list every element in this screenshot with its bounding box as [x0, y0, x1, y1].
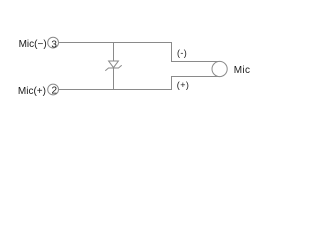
svg-text:(+): (+) [177, 80, 189, 90]
wire from pin 2 to (+) node [59, 77, 220, 90]
svg-text:3: 3 [51, 40, 57, 51]
svg-text:Mic: Mic [234, 65, 250, 76]
terminal pin 3 [48, 37, 59, 48]
svg-text:Mic(−): Mic(−) [19, 39, 47, 50]
wire zener cathode branch [113, 68, 115, 90]
microphone capsule M1 [212, 61, 227, 76]
svg-text:(-): (-) [177, 48, 187, 58]
svg-text:2: 2 [52, 86, 58, 97]
wire from pin 3 to (-) node [59, 43, 220, 62]
terminal pin 2 [48, 84, 59, 95]
svg-text:Mic(+): Mic(+) [18, 86, 46, 97]
wire zener anode branch [113, 43, 115, 62]
zener diode [109, 61, 119, 68]
